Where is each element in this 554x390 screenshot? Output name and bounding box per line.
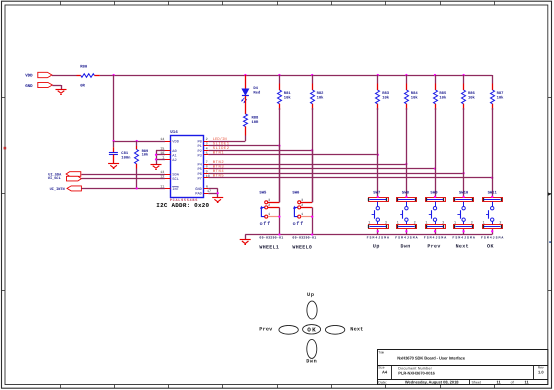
ground (U14 pad) (212, 197, 223, 199)
nav pad right ellipse (325, 325, 344, 334)
wire D4 to R88 (245, 96, 247, 114)
pin 3 P1 U14 (197, 142, 208, 150)
ground (C81) (108, 163, 119, 165)
wire net UI_INTN (81, 188, 165, 190)
pin 15 A0 U14 (160, 146, 177, 154)
svg-text:Red: Red (253, 91, 261, 96)
resistor R82 10k (311, 75, 325, 110)
junction R89/INT (136, 187, 138, 189)
switch SW5 (wheel slide) (259, 191, 279, 228)
wire SW10 to ground rail (463, 229, 465, 234)
wire net UI_SDA (81, 174, 165, 176)
port GND (25, 82, 52, 88)
svg-text:3: 3 (206, 142, 208, 147)
wire net BTN5 (208, 177, 492, 179)
pin 4 P2 U14 (197, 146, 208, 154)
wire GND pin to ground (208, 188, 217, 190)
junction VDD rail / R82 (311, 74, 313, 76)
junction SW10 top (462, 196, 464, 198)
junction A2 (155, 158, 157, 160)
svg-text:10k: 10k (439, 96, 447, 101)
junction net BTN2 (405, 163, 407, 165)
svg-text:D4: D4 (253, 86, 258, 91)
pin 1 A2 U14 (162, 156, 176, 164)
wire SW9 to ground rail (435, 229, 437, 234)
svg-text:10k: 10k (382, 96, 390, 101)
wire SW8 to ground rail (406, 229, 408, 234)
junction net SLIDE1 (278, 144, 280, 146)
junction SW9 bottom (434, 230, 436, 232)
resistor R83 10k (376, 75, 390, 110)
svg-text:10R: 10R (252, 120, 260, 125)
junction VDD rail / D4 (244, 74, 246, 76)
svg-text:OK: OK (307, 326, 316, 333)
svg-text:I2C ADDR: 0x20: I2C ADDR: 0x20 (156, 202, 209, 209)
wire net BTN3 (208, 168, 435, 170)
svg-text:SLIDE2: SLIDE2 (213, 146, 230, 151)
wire R82 down (312, 108, 314, 202)
resistor R81 10k (278, 75, 292, 110)
svg-text:OK: OK (487, 244, 494, 250)
wire GND port (52, 85, 61, 87)
title block (377, 350, 548, 385)
svg-text:P7: P7 (197, 176, 201, 181)
junction net BTN4 (462, 172, 464, 174)
svg-text:A4: A4 (382, 369, 388, 374)
junction VDD rail / U14 feed (112, 74, 114, 76)
port UI_SDA (48, 172, 81, 178)
svg-text:BTN5: BTN5 (213, 174, 225, 179)
svg-text:off: off (293, 221, 304, 227)
wire net SLIDE2 (208, 150, 312, 152)
svg-text:LED/IN: LED/IN (213, 137, 227, 142)
junction VDD rail / R85 (434, 74, 436, 76)
svg-text:A2: A2 (172, 158, 176, 163)
svg-text:9: 9 (206, 169, 208, 174)
wire R86 down (463, 108, 465, 197)
svg-text:Title: Title (378, 351, 384, 355)
nav pad down ellipse (307, 339, 317, 358)
ground (switch rail) (240, 239, 251, 241)
svg-text:P4: P4 (197, 163, 202, 168)
wire SW6 pin2/1 to ground rail (312, 207, 314, 234)
junction SW7 top (377, 196, 379, 198)
svg-text:8: 8 (206, 165, 208, 170)
svg-text:R88: R88 (252, 115, 260, 120)
svg-text:10k: 10k (317, 96, 325, 101)
IC U14 (PCAL9554BS I/O expander) (170, 130, 203, 198)
junction VDD rail / R83 (377, 74, 379, 76)
pin 7 P4 U14 (197, 160, 208, 168)
wire A0 strap (156, 150, 165, 152)
svg-text:Up: Up (373, 244, 380, 250)
svg-text:10k: 10k (284, 96, 292, 101)
svg-text:100n: 100n (121, 155, 131, 160)
capacitor C81 (109, 141, 131, 164)
junction SW8 bottom (405, 230, 407, 232)
svg-text:VDD: VDD (172, 140, 179, 145)
port UI_INTN (50, 186, 82, 192)
junction C81 tap (112, 140, 114, 142)
resistor R87 10k (491, 75, 505, 110)
svg-text:4: 4 (206, 146, 208, 151)
svg-text:Prev: Prev (259, 326, 273, 332)
wire R83 down (377, 108, 379, 197)
svg-text:7: 7 (206, 160, 208, 165)
svg-text:PAD: PAD (195, 192, 202, 197)
svg-text:10k: 10k (468, 96, 476, 101)
pin 2 P0 U14 (197, 137, 208, 145)
svg-text:P2: P2 (197, 149, 201, 154)
wire VDD port to R80 (52, 75, 77, 77)
wire R81 down (279, 108, 281, 202)
svg-text:2: 2 (206, 137, 208, 142)
svg-text:A1: A1 (172, 153, 177, 158)
svg-text:FSM4JSMA: FSM4JSMA (424, 236, 446, 240)
resistor R80 (80, 65, 94, 89)
svg-text:1.0: 1.0 (538, 369, 544, 374)
wire R89 to INT net (136, 169, 138, 189)
junction A1 (155, 154, 157, 156)
junction VDD rail / R84 (405, 74, 407, 76)
svg-text:A0: A0 (172, 149, 176, 154)
pin 11 INT U14 (160, 185, 180, 193)
junction SW5 pin1 (278, 215, 280, 217)
svg-text:Next: Next (456, 244, 469, 250)
junction SW10 bottom (462, 230, 464, 232)
junction SW8 top (405, 196, 407, 198)
wire A2 strap (156, 159, 165, 161)
svg-text:R87: R87 (497, 91, 505, 96)
switch SW7 (push button) (368, 190, 388, 228)
svg-text:SW11: SW11 (488, 190, 498, 195)
junction R89 tap (136, 140, 138, 142)
svg-text:SW7: SW7 (373, 190, 381, 195)
wire VDD rail (100, 75, 492, 77)
svg-text:10k: 10k (497, 96, 505, 101)
wire R87 down (492, 108, 494, 197)
wire PAD pin (208, 193, 217, 195)
svg-text:10k: 10k (411, 96, 419, 101)
svg-text:P0: P0 (197, 140, 201, 145)
svg-text:P5: P5 (197, 167, 201, 172)
pin 16 A1 U14 (160, 151, 177, 159)
svg-text:R85: R85 (439, 91, 447, 96)
junction VDD rail / R81 (278, 74, 280, 76)
wire R85 down (435, 108, 437, 197)
switch SW11 (push button) (483, 190, 503, 228)
svg-text:SW8: SW8 (402, 190, 410, 195)
pin 13 SDA U14 (160, 170, 180, 178)
svg-text:NxH3670 SDK Board - User Inter: NxH3670 SDK Board - User Interface (397, 355, 466, 360)
nav pad left ellipse (279, 325, 298, 334)
ground (GND port) (56, 89, 67, 91)
svg-text:Date:: Date: (378, 380, 387, 384)
pin 5 P3 U14 (197, 151, 208, 159)
svg-text:Prev: Prev (427, 244, 440, 250)
svg-text:Wednesday, August 08, 2018: Wednesday, August 08, 2018 (405, 379, 459, 384)
junction net BTN1 (377, 154, 379, 156)
wire switch ground rail (245, 234, 492, 236)
svg-text:U14: U14 (170, 130, 178, 135)
svg-text:Next: Next (350, 326, 363, 332)
switch SW6 (wheel slide) (292, 191, 312, 228)
svg-text:GND: GND (25, 84, 33, 89)
svg-text:P1: P1 (197, 144, 202, 149)
svg-text:off: off (260, 221, 271, 227)
wire SW11 to ground rail (492, 229, 494, 234)
wire VDD rail down to U14 (113, 75, 115, 141)
svg-text:Sheet: Sheet (472, 380, 481, 384)
svg-text:of: of (511, 380, 514, 384)
junction net BTN5 (491, 177, 493, 179)
port VDD (25, 72, 52, 78)
svg-text:09-03290-01: 09-03290-01 (292, 236, 316, 240)
pin 6 GND U14 (195, 184, 208, 192)
svg-text:INT: INT (172, 187, 179, 192)
wire SW7 to ground rail (377, 229, 379, 234)
LED D4 (241, 75, 261, 103)
switch SW9 (push button) (425, 190, 445, 228)
wire VDD feed to U14 pin 14 (114, 141, 165, 143)
svg-text:R84: R84 (411, 91, 419, 96)
junction PAD/GND (217, 192, 219, 194)
wire net LED/IN (208, 141, 245, 143)
pin 8 P5 U14 (197, 165, 208, 173)
svg-text:Dwn: Dwn (401, 244, 411, 250)
svg-text:BTN4: BTN4 (213, 169, 225, 174)
junction SW9 top (434, 196, 436, 198)
junction SW6 pin1 (311, 215, 313, 217)
svg-text:UI_SCL: UI_SCL (48, 176, 61, 181)
resistor R86 10k (462, 75, 476, 110)
svg-text:Up: Up (307, 292, 314, 298)
junction SW7 bottom (377, 230, 379, 232)
junction SW6 ground rail (311, 233, 313, 235)
wire R84 down (406, 108, 408, 197)
resistor R85 10k (434, 75, 447, 110)
svg-text:FSM4JSMA: FSM4JSMA (395, 236, 417, 240)
svg-text:09-03290-01: 09-03290-01 (259, 236, 283, 240)
resistor R84 10k (405, 75, 419, 110)
wire SLIDE1 vertical to SW5 (279, 146, 281, 203)
svg-text:SCL: SCL (172, 177, 179, 182)
wire net BTN1 (208, 154, 377, 156)
junction SW5 ground rail (278, 233, 280, 235)
svg-text:UI_INTN: UI_INTN (50, 187, 65, 192)
svg-text:P6: P6 (197, 172, 201, 177)
nav pad OK ellipse (303, 325, 321, 334)
wire net BTN2 (208, 164, 406, 166)
wire R80 to VDD rail (94, 75, 99, 77)
wire A1 strap (156, 154, 165, 156)
svg-text:R81: R81 (284, 91, 292, 96)
svg-text:R80: R80 (80, 65, 88, 70)
svg-text:10k: 10k (142, 152, 149, 157)
wire net UI_SCL (81, 178, 165, 180)
wire net BTN4 (208, 173, 463, 175)
resistor R88 (244, 114, 260, 127)
wire A-pins vertical (156, 150, 158, 164)
junction VDD rail / R86 (462, 74, 464, 76)
switch SW10 (push button) (454, 190, 474, 228)
wire net SLIDE1 (208, 145, 279, 147)
pin 9 P6 U14 (197, 169, 208, 177)
pin 10 P7 U14 (197, 174, 209, 182)
svg-text:14: 14 (160, 137, 164, 142)
svg-text:0R: 0R (80, 83, 85, 88)
wire SW5 pin2/1 to ground rail (279, 207, 281, 234)
junction net SLIDE2 (311, 149, 313, 151)
svg-text:R82: R82 (317, 91, 325, 96)
svg-text:5: 5 (206, 151, 208, 156)
svg-text:R86: R86 (468, 91, 476, 96)
svg-text:FSM4JSMA: FSM4JSMA (367, 236, 389, 240)
pin 17 PAD U14 (195, 189, 211, 197)
svg-text:6: 6 (206, 184, 208, 189)
wire R88 to LED/IN net (245, 127, 247, 136)
wire SLIDE2 vertical to SW6 (312, 150, 314, 202)
svg-text:BTN1: BTN1 (213, 151, 225, 156)
junction SW11 top (491, 196, 493, 198)
pin 14 VDD U14 (160, 137, 180, 145)
port UI_SCL (48, 176, 82, 181)
pin 12 SCL U14 (160, 175, 179, 183)
ground (A pins) (151, 164, 162, 166)
svg-text:SW9: SW9 (430, 190, 438, 195)
svg-text:BTN2: BTN2 (213, 160, 225, 165)
resistor R89 (135, 141, 150, 169)
svg-text:FSM4JSMA: FSM4JSMA (452, 236, 474, 240)
svg-text:WHEEL0: WHEEL0 (292, 245, 312, 251)
junction net BTN3 (434, 167, 436, 169)
svg-text:SW6: SW6 (292, 191, 300, 196)
svg-text:SW5: SW5 (259, 191, 267, 196)
junction SW11 bottom (491, 230, 493, 232)
svg-text:SDA: SDA (172, 173, 179, 178)
svg-text:WHEEL1: WHEEL1 (259, 245, 279, 251)
svg-text:FSM4JSMA: FSM4JSMA (481, 236, 503, 240)
svg-text:SW10: SW10 (459, 190, 469, 195)
svg-text:VDD: VDD (25, 74, 33, 79)
svg-text:Dwn: Dwn (306, 358, 317, 364)
svg-text:BTN3: BTN3 (213, 165, 225, 170)
nav pad up ellipse (307, 301, 317, 319)
svg-text:SLIDE1: SLIDE1 (213, 142, 230, 147)
svg-text:GND: GND (195, 187, 202, 192)
svg-text:PLR-NXH3670-0016: PLR-NXH3670-0016 (398, 370, 435, 375)
svg-text:P3: P3 (197, 153, 201, 158)
svg-text:R83: R83 (382, 91, 390, 96)
switch SW8 (push button) (397, 190, 417, 228)
